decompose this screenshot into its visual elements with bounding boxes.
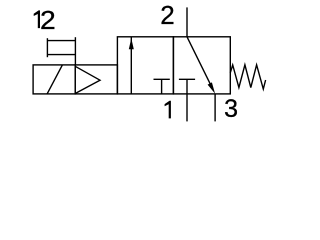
pilot amplifier box xyxy=(75,65,117,94)
blocked port T right square bar xyxy=(179,78,195,80)
pilot port 12 frame bottom rail xyxy=(47,54,75,56)
label 12 digit 2 xyxy=(40,7,56,33)
pilot port 12 frame right post / pilot line xyxy=(74,37,76,65)
valve body right square xyxy=(173,37,230,94)
label 2 (port) xyxy=(160,2,174,28)
flow path 1 to 2 arrowhead xyxy=(129,38,134,49)
blocked port T left square bar xyxy=(154,78,170,80)
solenoid diagonal stroke xyxy=(47,65,62,94)
return spring xyxy=(230,65,265,89)
pilot port 12 frame left post xyxy=(46,38,48,57)
solenoid coil box xyxy=(33,65,75,94)
port 3 stub xyxy=(214,94,216,122)
valve body left square xyxy=(117,37,173,94)
label 1 (port) xyxy=(165,101,171,119)
blocked port T right square stem xyxy=(186,79,188,94)
flow path 2 to 3 arrowhead xyxy=(208,82,216,93)
flow path 1 to 2 line xyxy=(130,37,132,94)
blocked port T left square stem xyxy=(161,79,163,94)
flow path 2 to 3 diagonal xyxy=(187,37,213,90)
pilot port 12 frame top rail xyxy=(47,40,75,42)
label 12 digit 1 xyxy=(34,10,40,28)
port 2 line xyxy=(186,7,188,36)
pilot triangle xyxy=(75,66,100,93)
label 3 (port) xyxy=(224,97,238,122)
port 1 stub xyxy=(186,94,188,122)
